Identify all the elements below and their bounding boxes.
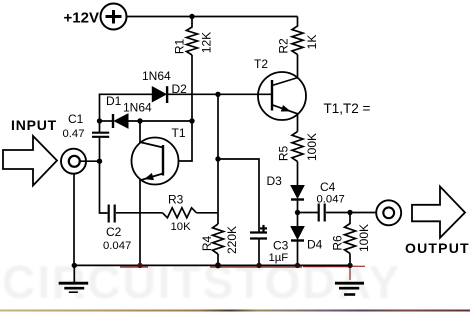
watermark text (faint): [2, 256, 401, 308]
transistor T1: [132, 138, 179, 185]
svg-text:D4: D4: [307, 238, 323, 252]
svg-text:0.047: 0.047: [317, 194, 345, 206]
wire: jack sleeve to ground: [73, 174, 75, 266]
svg-text:R1: R1: [172, 39, 186, 55]
svg-text:D1: D1: [106, 94, 122, 108]
wire: D3 to D4 node: [297, 201, 299, 227]
svg-text:R3: R3: [168, 193, 184, 207]
wire: branch down to R4: [217, 159, 219, 224]
node: D1 line / R1 junction: [189, 118, 194, 123]
ground (left): [59, 265, 88, 292]
output jack connector: [376, 200, 401, 225]
capacitor C2: [109, 205, 115, 223]
wire: T1 collector to D1 line: [139, 121, 141, 143]
wire: C1 top lead: [99, 121, 101, 133]
node: top rail / R1 junction: [189, 14, 194, 19]
svg-text:T1: T1: [172, 126, 186, 140]
node: rail dots: [72, 262, 353, 268]
svg-text:INPUT: INPUT: [11, 117, 57, 133]
diode D2: [152, 86, 168, 103]
wire: R1 bottom to T1 base node: [179, 55, 193, 161]
wire: R5 to D3: [297, 162, 299, 186]
wire: C1 bottom lead: [99, 137, 101, 161]
svg-text:C3: C3: [273, 239, 289, 253]
node: branch corner junction: [215, 156, 220, 161]
wire: R4 to ground rail: [217, 254, 219, 265]
svg-text:1K: 1K: [305, 35, 319, 50]
capacitor C4: [319, 204, 325, 222]
svg-text:R5: R5: [276, 146, 290, 162]
wire: R6 to ground rail: [349, 254, 351, 266]
resistor R6: [345, 213, 356, 254]
wire: C4 to output jack: [326, 212, 376, 214]
capacitor C3 (electrolytic): [250, 225, 267, 239]
wire: middle branch (D2 node down / across to C3): [218, 94, 259, 231]
diode D3: [291, 186, 304, 201]
svg-text:0.47: 0.47: [63, 128, 85, 140]
node: D2 line / R4 branch junction: [215, 92, 220, 97]
wire: C3 to ground rail: [258, 239, 260, 266]
wire: R2 to T2 collector: [297, 55, 299, 79]
svg-text:12K: 12K: [200, 32, 214, 53]
wire: D2 cathode to T2 base: [168, 93, 272, 95]
diode D1: [112, 114, 128, 128]
svg-text:100K: 100K: [305, 133, 319, 161]
watermark red underline on rail: [120, 266, 365, 280]
wire: R3 to R4 branch: [197, 212, 219, 214]
resistor R2: [292, 17, 303, 55]
svg-text:C4: C4: [320, 180, 336, 194]
svg-text:+12V: +12V: [64, 9, 99, 26]
node: input node: [97, 159, 102, 164]
ground (right): [335, 283, 364, 294]
wire: C4 line: [298, 212, 319, 214]
wire: T2 emitter to R5: [297, 114, 299, 132]
OUTPUT arrow: [412, 187, 465, 238]
svg-text:10K: 10K: [171, 221, 192, 233]
wire: D4 to ground rail: [297, 242, 299, 266]
svg-text:T2: T2: [254, 57, 268, 71]
node: C4 / R6 / output junction: [347, 210, 352, 215]
svg-text:0.047: 0.047: [103, 240, 131, 252]
svg-text:1N64: 1N64: [142, 69, 171, 83]
svg-text:C2: C2: [106, 225, 122, 239]
svg-text:100K: 100K: [357, 224, 371, 252]
svg-text:R2: R2: [277, 38, 291, 54]
svg-text:R4: R4: [200, 236, 214, 252]
wire: D1 line: [100, 120, 113, 122]
power source V+ circle: [101, 4, 127, 30]
wire: D1 anode to R1/T1 node: [128, 120, 192, 122]
node: D3/D4/C4 junction: [295, 210, 300, 215]
resistor R4: [213, 224, 224, 254]
wire: +12V top rail: [127, 16, 298, 18]
wire: ground rail: [74, 264, 350, 266]
wire: T1 emitter to ground rail: [139, 180, 141, 265]
resistor R5: [292, 132, 303, 162]
resistor R1: [187, 17, 198, 56]
svg-text:220K: 220K: [225, 226, 239, 254]
svg-text:D3: D3: [267, 174, 283, 188]
wire: input node down to C2: [100, 161, 108, 213]
node: D1 line / T1 collector junction: [137, 118, 142, 123]
diode D4: [291, 227, 304, 242]
input jack connector: [61, 149, 86, 174]
resistor R3: [163, 208, 197, 218]
INPUT arrow: [3, 136, 57, 186]
svg-text:1N64: 1N64: [123, 101, 152, 115]
svg-text:R6: R6: [331, 235, 345, 251]
wire: T2 collector lead: [297, 77, 299, 78]
capacitor C1: [92, 133, 109, 137]
wire: C2 to R3: [116, 212, 163, 214]
svg-text:C1: C1: [68, 112, 84, 126]
svg-text:1µF: 1µF: [269, 252, 289, 264]
wire: detector node vertical (C1 top to D2 line): [100, 94, 153, 121]
svg-text:OUTPUT: OUTPUT: [405, 240, 470, 256]
wire: jack tip to input node: [80, 160, 100, 162]
node: C1 / D1 junction: [97, 118, 102, 123]
svg-text:T1,T2 =: T1,T2 =: [324, 101, 371, 116]
transistor T2: [258, 72, 306, 120]
